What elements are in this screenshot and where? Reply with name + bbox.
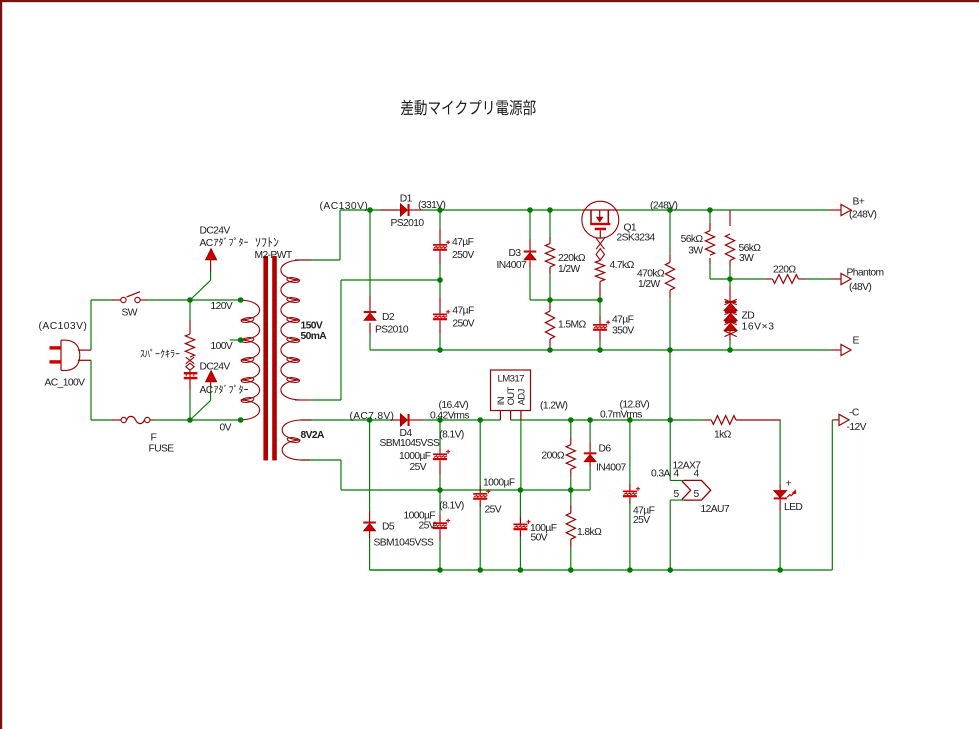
svg-text:0.7mVrms: 0.7mVrms <box>600 410 642 421</box>
svg-text:3W: 3W <box>688 246 703 257</box>
svg-text:100V: 100V <box>211 341 233 352</box>
svg-text:AC: AC <box>200 385 214 396</box>
svg-text:SBM1045VSS: SBM1045VSS <box>374 538 435 549</box>
svg-text:8V2A: 8V2A <box>301 430 326 441</box>
svg-text:OUT: OUT <box>506 386 516 405</box>
svg-text:D5: D5 <box>382 522 395 533</box>
svg-text:0.3A: 0.3A <box>651 469 671 480</box>
svg-text:56kΩ: 56kΩ <box>681 234 704 245</box>
svg-text:220Ω: 220Ω <box>773 265 796 276</box>
svg-text:(8.1V): (8.1V) <box>439 430 464 441</box>
svg-text:FUSE: FUSE <box>149 444 175 455</box>
svg-text:E: E <box>853 336 860 347</box>
svg-text:(248V): (248V) <box>650 201 677 212</box>
svg-text:Phantom: Phantom <box>847 268 884 279</box>
svg-text:25V: 25V <box>409 462 426 473</box>
svg-text:(AC130V): (AC130V) <box>320 201 369 212</box>
svg-text:5: 5 <box>694 489 700 500</box>
svg-text:1.8kΩ: 1.8kΩ <box>577 527 602 538</box>
svg-text:1000µF: 1000µF <box>399 451 431 462</box>
svg-text:(248V): (248V) <box>849 210 876 221</box>
svg-text:B+: B+ <box>853 197 865 208</box>
svg-text:(48V): (48V) <box>849 282 871 293</box>
svg-text:47µF: 47µF <box>452 237 474 248</box>
svg-text:IN: IN <box>496 397 506 405</box>
svg-text:LM317: LM317 <box>498 374 525 385</box>
svg-text:F: F <box>151 433 157 444</box>
svg-text:4: 4 <box>694 469 700 480</box>
svg-text:SBM1045VSS: SBM1045VSS <box>380 438 441 449</box>
svg-text:350V: 350V <box>612 326 634 337</box>
svg-text:1.5MΩ: 1.5MΩ <box>558 320 586 331</box>
svg-text:-12V: -12V <box>847 422 867 433</box>
svg-text:1/2W: 1/2W <box>558 264 581 275</box>
svg-text:AC_100V: AC_100V <box>45 378 86 389</box>
svg-text:M2-PWT: M2-PWT <box>255 250 293 261</box>
svg-text:50V: 50V <box>531 533 548 544</box>
svg-text:47µF: 47µF <box>452 306 474 317</box>
svg-text:D3: D3 <box>509 248 522 259</box>
svg-text:25V: 25V <box>633 515 650 526</box>
svg-text:1000µF: 1000µF <box>483 478 515 489</box>
svg-text:(1.2W): (1.2W) <box>540 401 567 412</box>
svg-text:250V: 250V <box>452 250 474 261</box>
svg-text:120V: 120V <box>211 301 233 312</box>
svg-text:(331V): (331V) <box>418 200 445 211</box>
svg-text:+: + <box>786 478 792 490</box>
svg-text:25V: 25V <box>485 505 502 516</box>
svg-text:4.7kΩ: 4.7kΩ <box>610 260 635 271</box>
svg-text:1/2W: 1/2W <box>638 279 661 290</box>
svg-text:D2: D2 <box>382 312 395 323</box>
svg-text:0.42Vrms: 0.42Vrms <box>430 411 469 422</box>
svg-text:4: 4 <box>674 469 680 480</box>
svg-text:D6: D6 <box>599 444 612 455</box>
svg-text:(AC7.8V): (AC7.8V) <box>350 411 395 422</box>
svg-text:16V×3: 16V×3 <box>742 322 775 333</box>
svg-text:250V: 250V <box>452 319 474 330</box>
svg-text:DC24V: DC24V <box>200 361 231 372</box>
svg-text:-C: -C <box>849 408 860 419</box>
svg-text:PS2010: PS2010 <box>375 325 409 336</box>
svg-text:47µF: 47µF <box>612 315 634 326</box>
svg-text:IN4007: IN4007 <box>596 463 626 474</box>
svg-text:LED: LED <box>784 502 802 513</box>
svg-text:(8.1V): (8.1V) <box>439 501 464 512</box>
svg-text:PS2010: PS2010 <box>391 218 425 229</box>
svg-text:(AC103V): (AC103V) <box>39 321 88 332</box>
svg-text:200Ω: 200Ω <box>542 451 565 462</box>
svg-text:D1: D1 <box>400 194 413 205</box>
svg-text:25V: 25V <box>418 521 435 532</box>
svg-text:SW: SW <box>122 308 138 319</box>
svg-text:470kΩ: 470kΩ <box>637 269 665 280</box>
svg-text:2SK3234: 2SK3234 <box>617 233 656 244</box>
svg-text:0V: 0V <box>220 423 232 434</box>
svg-text:50mA: 50mA <box>301 331 328 342</box>
svg-text:12AU7: 12AU7 <box>701 504 730 515</box>
svg-text:220kΩ: 220kΩ <box>558 253 586 264</box>
svg-text:AC: AC <box>200 238 214 249</box>
svg-text:DC24V: DC24V <box>200 226 231 237</box>
svg-text:3W: 3W <box>739 253 754 264</box>
svg-text:ADJ: ADJ <box>516 389 526 405</box>
svg-text:ZD: ZD <box>742 311 755 322</box>
svg-text:IN4007: IN4007 <box>497 260 527 271</box>
svg-text:5: 5 <box>674 489 680 500</box>
svg-text:1kΩ: 1kΩ <box>714 430 732 441</box>
